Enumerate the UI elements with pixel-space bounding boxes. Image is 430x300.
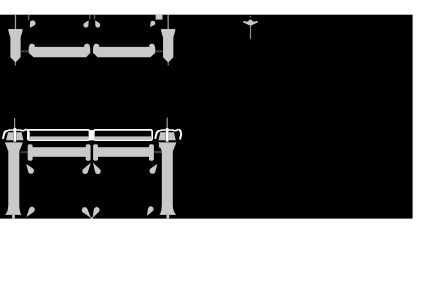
selection junction (white node between ghosts) [89, 130, 94, 140]
selection outline (ghost of beam R4) [94, 130, 152, 140]
column C1 (left pillar) [5, 142, 23, 215]
wire stub (clipped, top middle a) [89, 15, 90, 20]
wire link (post P1 to R1) [21, 50, 28, 52]
ghost fill strip (R3) [29, 136, 89, 139]
resistor R3 (middle beam, left) [28, 144, 91, 161]
wire link (R4 to column C2) [154, 151, 162, 153]
brace P1b (at column C1 base) [26, 207, 34, 217]
wire (middle feed, right) [167, 118, 168, 130]
insulator post P2 (top row, right) [161, 29, 176, 63]
brace T1 (under R3 left end) [26, 164, 34, 174]
brace P2b (at column C2 base) [147, 206, 154, 216]
wire link (column C1 to R3) [20, 151, 27, 153]
wire stub (clipped, top middle b) [94, 15, 95, 20]
column C2 base tip [167, 215, 170, 219]
resistor R4 (middle beam, right) [93, 144, 154, 161]
brace W3 (clipped, top middle right) [95, 20, 100, 27]
wire (stub below post P2) [168, 62, 169, 65]
ghost fill strip (R4) [95, 136, 151, 139]
wire stub (clipped, top edge left) [28, 15, 30, 20]
brace W1 (clipped, top edge) [30, 20, 36, 28]
canvas background [0, 15, 413, 219]
wire (antenna stem) [250, 26, 251, 39]
clipped pad (top edge) [156, 15, 163, 20]
wire link (R2 to post P2) [156, 50, 163, 52]
brace TM-right (under middle joint) [93, 163, 101, 175]
wire (top feed, right) [168, 15, 169, 29]
node (bottom middle tip) [91, 217, 93, 218]
brace PM-right (bottom middle joint) [93, 207, 100, 218]
brace W4 (clipped, near top right) [150, 21, 155, 27]
selection crown (right, white highlight) [155, 128, 181, 142]
brace (small, right of R4 cap) [159, 144, 162, 148]
wire (top feed, left) [15, 15, 16, 29]
brace TM-left (under middle joint) [82, 163, 91, 175]
wire (stub below post P1) [15, 62, 16, 65]
wire (middle feed, left) [14, 118, 15, 130]
selection outline (ghost of beam R3) [28, 130, 90, 140]
antenna A1 (top center-right) [250, 16, 251, 17]
column C1 base tip [12, 215, 15, 219]
brace PM-left (bottom middle joint) [82, 207, 91, 218]
insulator post P1 (top row, left) [8, 29, 23, 63]
selection crown (left, white highlight) [3, 128, 29, 142]
column C2 (right pillar) [158, 142, 176, 215]
resistor R2 (top beam, right) [93, 44, 155, 58]
brace W2 (clipped, top middle left) [83, 20, 88, 27]
brace T2 (under R4 right end) [150, 164, 158, 174]
resistor R1 (top beam, left) [29, 44, 91, 58]
